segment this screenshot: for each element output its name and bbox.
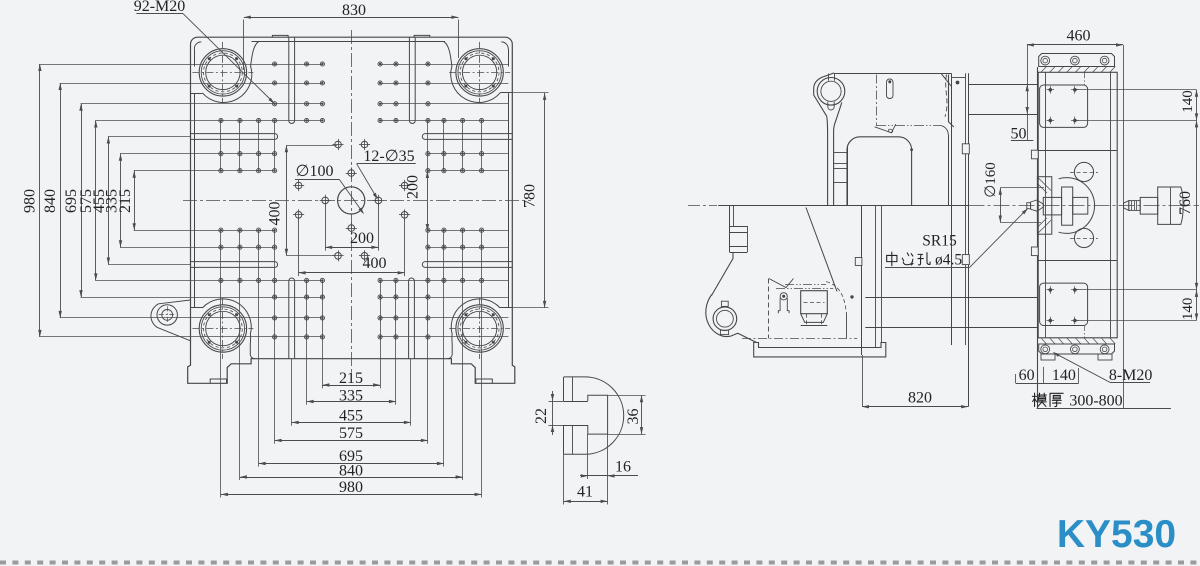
detail dimension 36 [608, 395, 646, 397]
center locating hole phi100 [338, 187, 365, 214]
flange hatch [1038, 178, 1051, 191]
svg-text:455: 455 [339, 408, 363, 425]
bottom slot extension lines [291, 359, 293, 426]
dimension 460 [1027, 44, 1123, 46]
svg-text:830: 830 [342, 2, 366, 19]
820 dimension [862, 355, 864, 407]
vertical centerline of platen [351, 30, 353, 372]
machine nozzle tip at platen [1031, 200, 1044, 211]
fixed platen face line [1037, 67, 1039, 409]
platen block slot detail [887, 79, 894, 99]
tie-bar hole bottom-right [456, 305, 503, 352]
svg-text:575: 575 [339, 425, 363, 442]
dimension 400 vertical center [286, 145, 288, 256]
side T-slot right lower [422, 262, 512, 268]
svg-text:36: 36 [625, 409, 642, 425]
contour wrap arc around bottom-left tie-bar [202, 299, 254, 359]
support center box dashed [768, 279, 770, 339]
platen block bottom hidden line [876, 125, 939, 127]
left dimension chain 335 [120, 154, 122, 248]
T-slot wide cavity [588, 395, 608, 434]
detail dimension 41 [563, 454, 565, 504]
svg-text:400: 400 [363, 255, 387, 272]
left dimension chain 215 [134, 171, 136, 231]
face clips fixed platen [1031, 150, 1038, 159]
platen block hidden left edge [876, 75, 878, 126]
dimension phi160 [1000, 187, 1044, 189]
V pointer detail lower [769, 279, 794, 288]
toggle boss arch [847, 137, 912, 205]
face clip lower [962, 255, 969, 265]
platen block top-right chamfer [941, 73, 951, 86]
svg-text:215: 215 [339, 370, 363, 387]
small surface dot lower [851, 296, 854, 299]
left dimension chain 575 [95, 121, 97, 281]
tie-bar hole bottom-left [199, 305, 246, 352]
injection mid block [1140, 197, 1158, 214]
top dimension 830 [244, 17, 459, 19]
support boss ribs [730, 226, 748, 228]
fixed platen body [1038, 72, 1117, 338]
bolt circle holes 12-phi35 [335, 141, 342, 148]
detail dimension 16 [587, 434, 589, 479]
locating ring flange [1037, 177, 1051, 235]
top hatch band [1041, 67, 1047, 73]
bottom T-slot right [409, 278, 415, 359]
contour stub bottom-right [500, 307, 512, 309]
center hole annotation leader [885, 267, 970, 269]
toggle boss ribs [834, 152, 847, 154]
dimension 200 vertical right of bolt circle [427, 171, 429, 231]
support lug [706, 295, 757, 343]
svg-text:780: 780 [522, 184, 539, 208]
svg-text:KY530: KY530 [1057, 513, 1176, 556]
injection nozzle torpedo [1124, 201, 1129, 211]
inner contour right edge [508, 93, 510, 308]
annotation Chinese: center hole phi4.5 [887, 252, 897, 266]
annotation Chinese: mold thickness 300-800 [1032, 393, 1046, 406]
svg-text:∅160: ∅160 [983, 162, 999, 198]
svg-text:200: 200 [405, 175, 422, 199]
hole grid top-right block [426, 62, 430, 66]
left dimension chain 455 [108, 137, 110, 265]
moving platen face plate lines [948, 135, 950, 206]
small surface dot upper [911, 149, 913, 151]
svg-text:215: 215 [117, 189, 134, 213]
fixed platen top cap [1039, 54, 1115, 67]
hole grid bottom-left block [273, 335, 277, 339]
fixed platen bottom cap [1039, 344, 1115, 354]
toggle boss left profile [834, 103, 842, 206]
long diagonal brace [806, 208, 837, 292]
hole row extension lines left half [39, 64, 322, 66]
mold mounting rect lower [1040, 283, 1088, 325]
svg-text:8-M20: 8-M20 [1109, 367, 1153, 384]
contour stub top-left [191, 93, 203, 95]
svg-text:140: 140 [1180, 90, 1196, 113]
right dimension chain 140-760-140 [1075, 89, 1197, 91]
support lug top tab [721, 301, 728, 306]
injection cylinder block [1158, 187, 1184, 224]
right dimension 780 [508, 92, 548, 94]
lug bottom retainer tab [828, 102, 834, 110]
moving platen right edge upper [948, 75, 950, 122]
T-slot neck lines [564, 401, 588, 403]
clip on box edge [855, 258, 862, 266]
svg-text:∅100: ∅100 [296, 163, 334, 180]
sprue bush rects [1043, 197, 1061, 215]
top edge tab right [414, 35, 430, 37]
left dimension chain 840 [60, 83, 62, 318]
contour stub bottom-left [191, 307, 203, 309]
support lower-left profile [712, 252, 734, 295]
side T-slot left lower [191, 262, 278, 268]
top T-slot right [409, 37, 415, 123]
locating ring arc [1059, 178, 1095, 234]
side lug with hole on left edge [151, 300, 191, 341]
inner contour right edge upper [508, 49, 510, 67]
platen outer outline with bottom feet [188, 37, 515, 383]
svg-text:ø4.5: ø4.5 [935, 252, 962, 269]
contour stub top-right [500, 92, 512, 94]
platen mid circles [1074, 162, 1093, 181]
inner contour left edge upper [194, 49, 196, 67]
svg-text:41: 41 [577, 484, 593, 501]
bottom T-slot left [289, 278, 295, 359]
svg-text:820: 820 [908, 389, 932, 406]
support verticals right [875, 206, 877, 348]
svg-text:60: 60 [1019, 367, 1035, 384]
svg-text:840: 840 [42, 189, 59, 213]
support left edge [729, 206, 731, 227]
svg-text:12-∅35: 12-∅35 [363, 148, 414, 165]
lower tie bar [865, 297, 1037, 299]
right foot notch [476, 379, 492, 383]
svg-text:SR15: SR15 [922, 233, 957, 250]
hole grid top-left block [273, 62, 277, 66]
mold mounting rect upper [1040, 85, 1088, 127]
left foot notch [210, 379, 226, 383]
svg-text:760: 760 [1177, 191, 1194, 215]
tie-bar hole top-left [199, 49, 246, 96]
moving platen top edge [834, 73, 951, 75]
upper tie bar [968, 84, 1037, 86]
lug top retainer tab [828, 74, 830, 81]
dashed quarter arc [826, 282, 846, 313]
hole grid bottom-right block [426, 335, 430, 339]
T-slot detail inner verticals [572, 377, 574, 401]
V pointer detail upper [875, 124, 896, 133]
svg-text:50: 50 [1011, 125, 1027, 142]
dimension 50 [1027, 45, 1029, 141]
support base plate [754, 343, 886, 357]
60-140 underline and ticks [1016, 383, 1079, 385]
contour wrap arc around top-left tie-bar [202, 42, 258, 103]
hole column lines mid blocks [220, 121, 222, 171]
left dimension chain 695 [81, 104, 83, 297]
bottom dotted separator [0, 561, 1200, 565]
contour wrap arc around bottom-right tie-bar [448, 299, 500, 359]
platen block edge break dashes [945, 75, 947, 117]
top edge tab left [272, 35, 288, 37]
svg-text:140: 140 [1180, 298, 1196, 321]
inner contour top-right corner [501, 42, 508, 49]
keyhole slot detail [780, 293, 787, 300]
detail dimension 22 [549, 401, 564, 403]
bottom dimension chain of platen [322, 385, 380, 387]
bottom dimension extension columns [220, 280, 222, 497]
svg-text:400: 400 [267, 202, 284, 226]
side T-slot left upper [191, 134, 278, 140]
side T-slot right upper [422, 134, 512, 140]
moving platen left profile [826, 116, 829, 205]
left dimension chain 980 [39, 64, 41, 337]
svg-text:92-M20: 92-M20 [134, 0, 186, 15]
fixed platen feet [1041, 354, 1055, 360]
svg-text:200: 200 [350, 230, 374, 247]
machine horizontal centerline [688, 205, 717, 207]
tie-bar hole top-right [456, 49, 503, 96]
hole row lines right half [380, 64, 508, 66]
platen centerline dashes [1084, 72, 1086, 85]
horizontal centerline of platen [183, 200, 531, 202]
svg-text:22: 22 [533, 408, 550, 424]
svg-text:980: 980 [22, 189, 39, 213]
box top dash-dot-dot line [785, 284, 826, 286]
contour wrap arc around top-right tie-bar [444, 42, 500, 103]
svg-text:460: 460 [1067, 27, 1091, 44]
dimension 400 horizontal center [298, 219, 300, 276]
top T-slot left [289, 37, 295, 123]
bottom hatch band [1041, 338, 1047, 344]
dimension 200 horizontal center [325, 205, 327, 251]
support top edge [718, 205, 968, 207]
mold thickness annotation line [1037, 408, 1171, 410]
svg-text:300-800: 300-800 [1069, 392, 1122, 409]
top cap bolts [1041, 56, 1050, 65]
inner contour top-left corner [194, 42, 201, 49]
svg-text:16: 16 [615, 459, 631, 476]
face clip upper [962, 144, 969, 154]
T-slot detail outline [564, 377, 624, 454]
support lug bottom tab [720, 330, 728, 334]
inner contour top edge [252, 41, 446, 43]
bottom cap bolts [1041, 345, 1050, 354]
svg-text:980: 980 [339, 479, 363, 496]
slot row extension lines [108, 136, 191, 138]
inner contour left edge [194, 93, 196, 308]
moving platen top lug [814, 73, 835, 116]
svg-text:140: 140 [1052, 367, 1076, 384]
inner cup detail [801, 291, 828, 314]
hole grid middle-left blocks [219, 152, 223, 156]
svg-text:840: 840 [339, 463, 363, 480]
svg-text:335: 335 [339, 388, 363, 405]
hole grid middle-right blocks [480, 152, 484, 156]
